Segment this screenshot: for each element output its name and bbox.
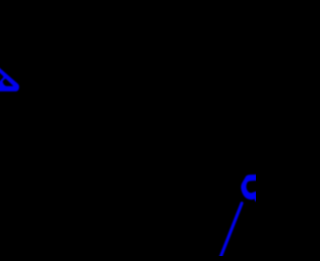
compass leg (thin diagonal line) <box>220 203 242 258</box>
compass handle loop (teardrop ring), clipped by right edge <box>241 174 256 199</box>
paper-plane / navigation-arrow icon fragment, clipped by left edge <box>0 66 19 91</box>
compass hinge nub at right edge <box>255 198 259 202</box>
